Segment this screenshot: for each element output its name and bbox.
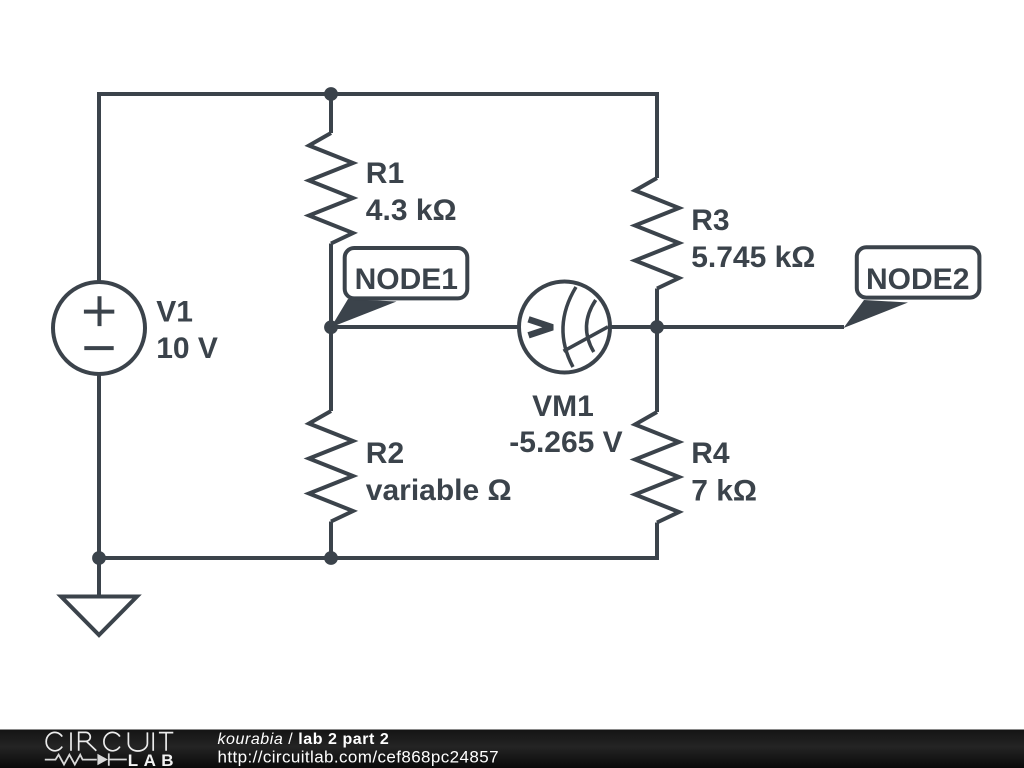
resistor R3 — [635, 178, 679, 289]
wire ground stem — [97, 558, 101, 597]
svg-text:LAB: LAB — [128, 751, 179, 768]
wire R1 bottom lead to NODE1 — [329, 244, 333, 328]
V1 minus sign — [84, 346, 113, 350]
node junction dot R3/R4/VM1 — [650, 320, 664, 334]
svg-text:http://circuitlab.com/cef868pc: http://circuitlab.com/cef868pc24857 — [218, 748, 499, 767]
svg-text:NODE1: NODE1 — [355, 263, 458, 296]
svg-text:10 V: 10 V — [156, 332, 218, 365]
wire R2 top lead — [329, 327, 333, 411]
svg-text:5.745 kΩ: 5.745 kΩ — [691, 241, 815, 274]
logo resistor-diode glyph — [45, 753, 127, 765]
footer bar — [0, 730, 1024, 768]
svg-text:-5.265 V: -5.265 V — [509, 426, 622, 459]
logo diode triangle — [97, 754, 108, 765]
node junction dot bottom rail R2 — [324, 551, 338, 565]
wire R2 bottom lead — [329, 522, 333, 559]
node NODE1 flag tail — [331, 299, 397, 327]
ground — [61, 597, 137, 636]
wire voltmeter to node — [610, 325, 657, 329]
svg-text:R3: R3 — [691, 204, 729, 237]
svg-text:R2: R2 — [366, 437, 404, 470]
wire bottom rail with V1 and R4 leads — [99, 373, 657, 558]
wire R4 top lead — [655, 327, 659, 412]
VM1 scale arc outer — [563, 287, 576, 367]
wire R1 top lead — [329, 94, 333, 133]
node NODE1 flag box — [345, 248, 468, 298]
svg-text:R4: R4 — [691, 437, 730, 470]
logo CIRCUIT word (hairline letters) — [46, 732, 173, 751]
V1 plus sign — [84, 296, 114, 326]
node NODE2 flag box — [857, 247, 980, 297]
wire node to NODE2 — [657, 325, 844, 329]
wire NODE1 to voltmeter — [331, 325, 519, 329]
node junction dot bottom rail V1 — [92, 551, 106, 565]
voltmeter VM1 circle — [519, 282, 610, 373]
wire R3 bottom lead — [655, 289, 659, 328]
svg-text:V1: V1 — [156, 296, 193, 329]
svg-text:4.3 kΩ: 4.3 kΩ — [366, 194, 457, 227]
resistor R2 — [309, 411, 353, 522]
node junction dot top rail / R1 — [324, 87, 338, 101]
wire top rail with V1 and R3 leads — [99, 94, 657, 283]
node NODE2 flag tail — [844, 300, 909, 328]
svg-text:variable Ω: variable Ω — [366, 474, 512, 507]
svg-text:VM1: VM1 — [532, 390, 594, 423]
VM1 scale arc inner — [586, 300, 595, 352]
svg-text:R1: R1 — [366, 157, 404, 190]
node NODE1 junction dot — [324, 320, 338, 334]
voltage source V1 circle — [53, 282, 145, 374]
svg-text:kourabia / lab 2 part 2: kourabia / lab 2 part 2 — [218, 731, 390, 748]
resistor R1 — [309, 133, 353, 244]
svg-text:NODE2: NODE2 — [866, 263, 969, 296]
VM1 arrow glyph — [529, 319, 553, 335]
resistor R4 — [635, 412, 679, 523]
svg-text:7 kΩ: 7 kΩ — [691, 475, 757, 508]
VM1 needle — [564, 327, 609, 351]
